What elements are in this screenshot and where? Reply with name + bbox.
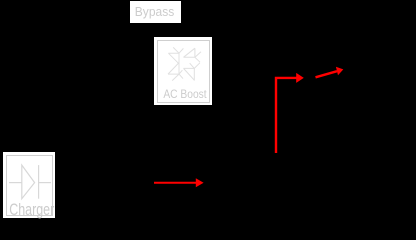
charger diode icon — [3, 152, 55, 218]
wire: arrow from Charger row to the right — [154, 178, 204, 187]
node Charger (component box) — [3, 152, 55, 218]
AC Boost icon — [167, 46, 202, 82]
node Bypass (label box) — [130, 1, 181, 23]
node AC Boost (component box) — [154, 37, 212, 105]
wire: L-shaped arrow rising to switch — [276, 73, 304, 153]
wire: switch blade arrow (diagonal) — [316, 67, 344, 78]
